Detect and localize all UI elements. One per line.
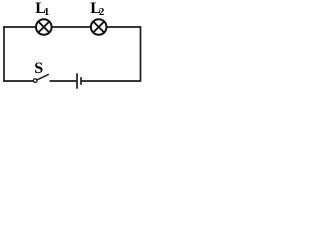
switch S blade [37,74,49,80]
switch S pivot [33,79,37,83]
wire right [140,26,142,82]
lamp L1 [36,19,52,35]
wire switch to battery [50,80,78,82]
wire top [3,26,141,28]
wire left [3,26,5,82]
svg-text:S: S [34,60,43,77]
wire battery to bottom-right [81,80,141,82]
svg-text:L1: L1 [35,0,49,18]
battery short plate [80,77,82,85]
lamp L2 [91,19,107,35]
wire bottom-left to switch [3,80,33,82]
battery long plate [76,73,78,88]
svg-text:L2: L2 [90,0,105,18]
